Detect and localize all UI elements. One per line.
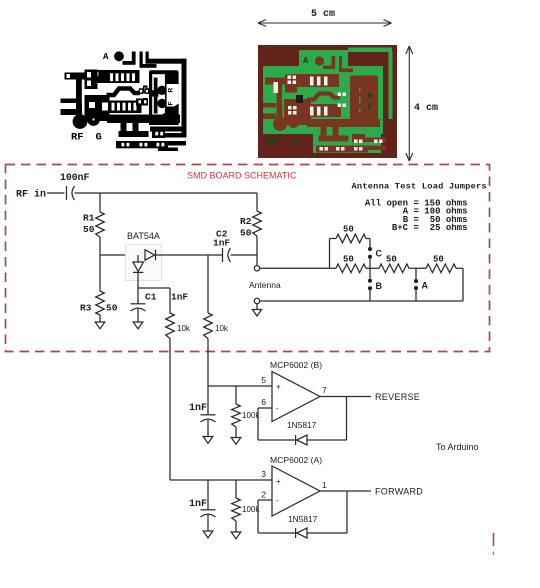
wire C1 to ground [137, 309, 139, 323]
resistor 10k (B channel) [204, 313, 213, 339]
svg-text:10k: 10k [177, 324, 191, 333]
svg-text:R: R [168, 88, 175, 93]
artwork block bottom bar [149, 118, 179, 125]
pin 1 output wire [320, 490, 371, 492]
artwork bottom right bar 1 [165, 133, 186, 138]
diode D1b vertical [133, 262, 143, 271]
op-amp U1B triangle [272, 372, 320, 422]
photo comb mid bar [319, 136, 349, 142]
photo pads right pairs [338, 93, 342, 97]
wire jumper B to bottom [369, 290, 371, 301]
artwork elbow trace near circle [123, 61, 136, 65]
photo trace elbow [323, 66, 335, 70]
photo row1 bar [292, 74, 339, 87]
svg-text:1N5817: 1N5817 [287, 420, 317, 430]
capacitor 1nF (A) [201, 509, 216, 511]
photo inner bar [356, 83, 360, 115]
wire 100k A to ground [235, 521, 237, 532]
resistor R1 [96, 212, 105, 237]
pin 6 wire [258, 407, 272, 409]
capacitor C2 [222, 248, 224, 262]
wire down to 1nF A [207, 480, 209, 509]
svg-text:7: 7 [322, 385, 327, 395]
svg-text:C: C [376, 249, 383, 259]
svg-text:R1: R1 [83, 213, 95, 224]
stray red dash bottom right [493, 533, 495, 546]
photo bottom pad pairs [320, 147, 324, 151]
wire branch to 100k B [235, 386, 237, 404]
svg-text:1nF: 1nF [213, 238, 230, 249]
capacitor C1 [131, 303, 146, 305]
wire R3 to ground [99, 315, 101, 322]
resistor 50 (c) [426, 264, 456, 273]
svg-text:G: G [96, 132, 102, 144]
wire R2 to antenna terminal [256, 236, 258, 266]
pin 2 wire [258, 499, 272, 501]
photo green mask main [263, 66, 383, 134]
svg-text:RF: RF [267, 137, 280, 149]
artwork RF pad circle [73, 114, 88, 129]
artwork left vertical trace [76, 79, 82, 103]
wire node to C1 [137, 288, 139, 304]
svg-text:F: F [168, 102, 175, 106]
svg-text:R: R [368, 93, 373, 100]
photo frame trace [350, 76, 378, 122]
artwork comb mid bar [119, 131, 149, 137]
artwork bottom pads bar [116, 141, 168, 148]
ground below 100k A [231, 532, 241, 539]
svg-text:C1: C1 [145, 292, 157, 303]
feedback wire up to pin2 [257, 500, 259, 533]
artwork comb tooth 1 [121, 123, 127, 133]
svg-text:Antenna Test Load Jumpers: Antenna Test Load Jumpers [352, 182, 487, 192]
svg-text:1nF: 1nF [171, 292, 188, 303]
ground below antenna terminal [256, 304, 258, 310]
photo br bar 1 [365, 138, 386, 143]
photo green top strip [348, 48, 392, 53]
svg-text:50: 50 [343, 255, 354, 265]
artwork round pad F [157, 99, 166, 108]
feedback wire left A [258, 532, 296, 534]
feedback wire left B [258, 439, 296, 441]
artwork pads blob bottom [152, 130, 165, 139]
photo left vertical [277, 84, 283, 106]
wire branch up to parallel 50 [329, 239, 331, 269]
feedback wire down B [346, 397, 348, 441]
artwork vertical trace 2 [140, 52, 143, 68]
photo G pad circle [288, 116, 300, 128]
artwork pads right of trapezoid [139, 88, 144, 94]
wire down to jumper C [369, 239, 371, 248]
artwork G pad circle [87, 113, 100, 126]
svg-text:2: 2 [261, 490, 266, 500]
photo comb tooth 2 [333, 127, 339, 137]
photo round pad R [359, 90, 368, 99]
photo row2 bar [299, 104, 341, 117]
svg-text:3: 3 [261, 469, 266, 479]
photo RF pad circle [273, 117, 287, 131]
artwork row2 component bar [101, 101, 142, 114]
svg-text:G: G [292, 137, 298, 149]
wire 1nF B to ground [207, 420, 209, 437]
artwork center blob [85, 95, 110, 121]
resistor 10k (A channel) [166, 313, 175, 339]
svg-text:100k: 100k [242, 505, 260, 514]
svg-text:To Arduino: To Arduino [436, 442, 479, 452]
jumper B pin top [368, 279, 372, 283]
jumper C pin bottom [368, 255, 372, 259]
node on wire to 10k second [207, 255, 209, 313]
photo green bottom tab [313, 134, 381, 153]
photo trapezoid trace [307, 94, 340, 100]
photo left pads block [285, 75, 297, 93]
svg-text:RF: RF [71, 132, 84, 144]
svg-text:-: - [276, 496, 279, 505]
op-amp U1A triangle [272, 466, 320, 516]
wire jumper A to bottom [415, 290, 417, 301]
photo bottom band [307, 119, 380, 127]
wire node to 10k branch [138, 287, 170, 289]
wire RF in to capacitor [47, 192, 65, 194]
pin 7 output wire [320, 396, 371, 398]
svg-text:A: A [103, 52, 109, 62]
artwork left cap bar 1 [61, 99, 77, 104]
svg-text:50: 50 [343, 225, 354, 235]
resistor 100k (B) [232, 404, 241, 427]
photo round pad F [359, 102, 368, 111]
photo pad square [366, 78, 376, 88]
svg-text:1: 1 [322, 480, 327, 490]
ground below C1 [133, 322, 143, 329]
artwork long L trace top right [146, 52, 149, 61]
photo trace above RF [277, 106, 283, 118]
wire 10k to opamp B [207, 339, 209, 387]
wire node B stub [369, 268, 371, 279]
artwork frame wedge [156, 104, 179, 119]
svg-text:50: 50 [240, 228, 252, 239]
ground below R3 [95, 322, 105, 329]
diode 1N5817 (B) [297, 435, 307, 445]
photo pads 2x2 mid [288, 106, 292, 110]
photo component bars row1 [310, 77, 314, 86]
stray gray tick bottom right [493, 552, 495, 556]
jumper C pin top [368, 247, 372, 251]
svg-text:R2: R2 [240, 216, 252, 227]
photo green top tab [299, 50, 348, 67]
svg-text:A: A [303, 56, 309, 66]
dashed schematic border [6, 165, 490, 352]
wire node to BAT54A [100, 254, 145, 256]
svg-text:1nF: 1nF [189, 499, 207, 510]
feedback wire down A [346, 491, 348, 533]
svg-text:50: 50 [433, 255, 444, 265]
wire top corner down to R2 [256, 193, 258, 211]
artwork bottom right bar 2 [167, 141, 186, 146]
vertical dimension arrow [408, 46, 410, 161]
artwork left elbow trace [65, 73, 86, 80]
artwork inner vertical bar [154, 78, 158, 114]
photo component bars row2 [310, 107, 314, 116]
resistor 100k (A) [232, 498, 241, 521]
artwork bottom extension [158, 148, 178, 152]
svg-text:+: + [276, 477, 281, 486]
photo left elbow [265, 78, 285, 85]
artwork pad big circle [114, 51, 124, 61]
svg-text:F: F [368, 105, 373, 112]
svg-text:REVERSE: REVERSE [375, 392, 420, 402]
svg-text:50: 50 [386, 255, 397, 265]
photo br bar 2 [367, 146, 386, 151]
wire stub to vertical diode [137, 255, 139, 262]
antenna terminal bottom circle [254, 298, 259, 303]
svg-text:FORWARD: FORWARD [375, 487, 423, 497]
artwork mid trapezoid trace [107, 89, 141, 96]
wire to right end [456, 267, 463, 269]
artwork pad pair left of frame [143, 86, 148, 94]
svg-text:B+C = 25 ohms: B+C = 25 ohms [392, 223, 468, 233]
wire C2 to R2 line [231, 254, 258, 256]
ground below 1nF A [203, 531, 213, 538]
svg-text:1N5817: 1N5817 [288, 514, 318, 524]
wire diode to node [137, 272, 139, 288]
wire R1 to node [99, 237, 101, 255]
wire down to 1nF B [207, 386, 209, 414]
photo trace vertical 2 [339, 56, 342, 69]
photo base board [258, 45, 397, 158]
photo component left tall [274, 82, 279, 93]
photo comb tooth 1 [321, 127, 327, 137]
svg-text:100nF: 100nF [60, 172, 90, 183]
artwork round pad R [157, 86, 166, 95]
artwork left pads block [85, 70, 98, 90]
wire to resistor 10k first [169, 288, 171, 313]
wire between resistors [366, 267, 379, 269]
BAT54A shaded box [126, 245, 162, 281]
photo cap bar 2 [263, 114, 276, 120]
feedback wire bottom A [307, 532, 347, 534]
photo cap bar 1 [263, 103, 276, 108]
svg-text:RF in: RF in [16, 189, 46, 201]
svg-text:10k: 10k [215, 324, 229, 333]
svg-text:-: - [276, 404, 279, 413]
artwork outer bottom bar [150, 127, 187, 132]
feedback wire up to pin6 [257, 408, 259, 440]
photo pads 2x2 top [288, 76, 292, 80]
photo bottom pads bar [316, 146, 368, 153]
pin 3 wire [170, 479, 272, 481]
wire bottom return [260, 300, 463, 302]
artwork right block [149, 70, 179, 125]
horizontal dimension arrow [258, 22, 392, 24]
jumper B pin bottom [368, 286, 372, 290]
artwork pads right of row2 [136, 99, 148, 106]
svg-text:SMD BOARD SCHEMATIC: SMD BOARD SCHEMATIC [187, 171, 297, 181]
svg-text:MCP6002 (B): MCP6002 (B) [270, 360, 322, 370]
svg-text:R3: R3 [80, 303, 92, 314]
feedback wire bottom B [307, 439, 347, 441]
resistor R2 [253, 211, 262, 236]
resistor 50 (b) [379, 264, 409, 273]
resistor R3 [96, 291, 105, 315]
wire 1nF A to ground [207, 515, 209, 532]
wire top branch right [366, 238, 370, 240]
wire node to R3 [99, 255, 101, 291]
jumper A pin bottom [414, 286, 418, 290]
wire capacitor to R2 corner [75, 192, 258, 194]
wire top branch [330, 238, 337, 240]
photo green right strip [389, 51, 393, 119]
wire to resistor c [409, 267, 426, 269]
antenna terminal top circle [254, 266, 259, 271]
svg-text:+: + [276, 383, 281, 392]
wire jumper C to main line [369, 259, 371, 269]
artwork comb tooth 2 [133, 123, 139, 133]
svg-text:MCP6002 (A): MCP6002 (A) [270, 455, 322, 465]
svg-text:BAT54A: BAT54A [127, 231, 160, 241]
wire node to R1 [99, 193, 101, 212]
artwork cross bar [149, 90, 159, 96]
resistor 50 (a) [336, 264, 366, 273]
wire antenna to load network [260, 267, 336, 269]
capacitor 100nF [66, 186, 68, 200]
diode 1N5817 (A) [297, 528, 307, 538]
svg-text:5: 5 [261, 375, 266, 385]
photo center blob [284, 99, 311, 125]
pin 5 wire [208, 385, 272, 387]
artwork row1 component bar [94, 70, 140, 83]
svg-text:B: B [376, 281, 383, 291]
svg-text:5 cm: 5 cm [311, 9, 335, 20]
wire 100k B to ground [235, 427, 237, 438]
svg-text:6: 6 [261, 397, 266, 407]
svg-text:4 cm: 4 cm [414, 103, 438, 114]
svg-text:50: 50 [83, 224, 95, 235]
svg-text:50: 50 [106, 303, 118, 314]
resistor 50 top [336, 234, 366, 243]
photo pads blob [352, 134, 365, 143]
svg-text:A: A [422, 281, 429, 291]
long wire 10k to opamp A [169, 339, 171, 481]
photo trace circle A [315, 56, 324, 65]
ground below 1nF B [203, 437, 213, 444]
artwork bottom band [107, 115, 180, 124]
photo dark chip center [296, 95, 303, 103]
artwork trace above RF pad [76, 103, 82, 115]
svg-text:Antenna: Antenna [249, 280, 281, 290]
artwork left cap bar 2 [61, 109, 77, 115]
jumper A pin top [414, 279, 418, 283]
wire right end down [462, 268, 464, 301]
wire node A stub [415, 268, 417, 279]
capacitor 1nF (B) [201, 414, 216, 416]
wire branch to 100k A [235, 480, 237, 498]
wire diode to C2 [156, 254, 223, 256]
ground below 100k B [231, 438, 241, 445]
diode D1a horizontal [145, 250, 155, 260]
svg-text:100k: 100k [242, 411, 260, 420]
svg-text:1nF: 1nF [189, 403, 207, 414]
